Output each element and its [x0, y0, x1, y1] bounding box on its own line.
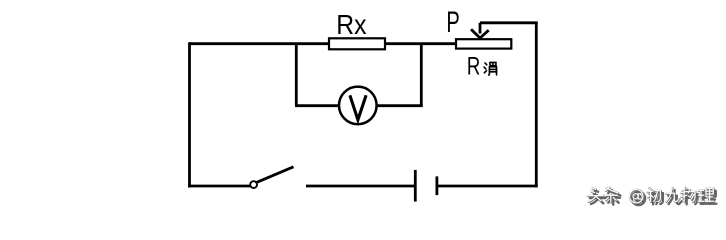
svg-text:Rx: Rx: [336, 9, 366, 41]
svg-text:P: P: [446, 6, 459, 39]
svg-text:R: R: [467, 52, 480, 80]
